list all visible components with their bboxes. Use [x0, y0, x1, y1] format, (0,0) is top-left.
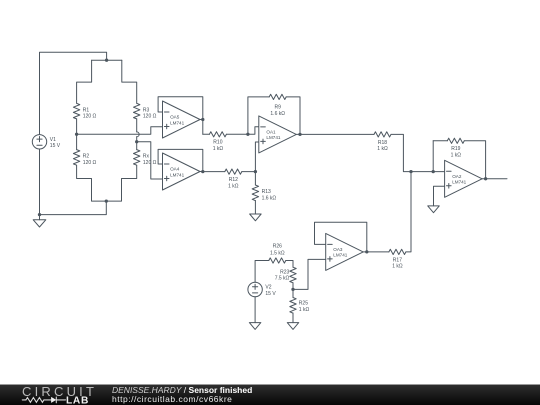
svg-text:LM741: LM741 — [170, 172, 184, 177]
node bridge bottom — [105, 199, 108, 202]
node OA5 output — [201, 118, 204, 121]
svg-text:R2: R2 — [83, 154, 90, 160]
svg-text:R25: R25 — [299, 301, 308, 307]
svg-text:7.5 kΩ: 7.5 kΩ — [275, 276, 290, 282]
resistor R25 — [290, 298, 296, 314]
svg-text:OA4: OA4 — [170, 167, 180, 172]
svg-text:LM741: LM741 — [452, 180, 466, 185]
svg-text:LM741: LM741 — [333, 253, 347, 258]
wire OA3 to R17 — [367, 251, 389, 253]
node OA4 output — [201, 170, 204, 173]
wire node C to OA1 - — [248, 127, 259, 135]
wire node A to OA5 + — [77, 127, 163, 135]
wire R9 feedback left — [248, 97, 269, 134]
wire OA1 output stub — [296, 133, 300, 135]
resistor R26 — [269, 258, 286, 263]
svg-text:120 Ω: 120 Ω — [83, 160, 97, 166]
svg-text:OA2: OA2 — [452, 174, 462, 179]
voltage source V2 — [248, 282, 262, 296]
resistor R9 — [269, 94, 286, 99]
wire R12 to node D — [242, 171, 256, 173]
wire R19 feedback left — [432, 141, 434, 172]
svg-text:120 Ω: 120 Ω — [83, 114, 97, 120]
svg-text:1 kΩ: 1 kΩ — [451, 153, 462, 159]
wire OA3 feedback — [315, 222, 367, 252]
wire R2 to bottom node — [77, 165, 107, 201]
wire bridge top — [92, 59, 122, 61]
svg-text:1 kΩ: 1 kΩ — [299, 307, 310, 313]
ground symbol at R13 — [250, 214, 262, 221]
wire V2 top to R26 — [255, 261, 269, 283]
svg-text:1 kΩ: 1 kΩ — [392, 264, 403, 270]
wire V2 bottom to ground — [254, 297, 256, 323]
wire bridge upper-right — [122, 60, 137, 103]
svg-text:OA1: OA1 — [266, 130, 276, 135]
node C R10/R9 junction — [246, 133, 249, 136]
wire R23 to node G — [292, 283, 294, 290]
ground symbol at V2 — [249, 323, 261, 330]
wire hop to node B — [136, 137, 138, 142]
wire R13 to ground — [254, 201, 256, 214]
wire OA2 + to ground — [434, 186, 445, 206]
wire node A to R2 — [76, 134, 78, 149]
svg-text:R17: R17 — [393, 257, 402, 263]
wire R25 to ground — [292, 313, 294, 323]
wire R1 to node — [76, 119, 78, 134]
svg-text:120 Ω: 120 Ω — [143, 114, 157, 120]
wire Rx to bottom node — [106, 165, 136, 201]
wire R19 lead left — [433, 140, 447, 142]
svg-text:R12: R12 — [229, 177, 238, 183]
resistor R3 — [134, 103, 140, 119]
wire R3 down to hop — [136, 119, 138, 132]
wire OA2 output stub — [482, 178, 486, 180]
wire bottom to V1 return — [40, 149, 107, 215]
wire OA5 feedback — [158, 97, 203, 135]
resistor R12 — [225, 169, 242, 174]
svg-text:R23: R23 — [280, 269, 289, 275]
wire OA5 output stub — [200, 119, 203, 121]
svg-text:R19: R19 — [451, 146, 460, 152]
voltage source V1 — [32, 135, 46, 149]
wire ground stub — [39, 215, 41, 220]
op-amp OA4 — [163, 153, 201, 190]
node E R17 tap — [409, 170, 412, 173]
wire OA4 to R12 — [203, 171, 225, 173]
resistor R18 — [374, 132, 391, 137]
svg-text:R3: R3 — [143, 107, 150, 113]
wire node D to OA1 + — [255, 142, 258, 172]
wire V1 top to rail — [40, 52, 107, 134]
node bridge top junction — [105, 59, 108, 62]
svg-text:1.5 kΩ: 1.5 kΩ — [270, 250, 285, 256]
wire R18 to OA2 - rail — [391, 134, 445, 171]
ground symbol at OA2 — [428, 206, 440, 213]
wire OA4 feedback — [158, 149, 203, 171]
svg-text:OA3: OA3 — [333, 247, 343, 252]
node G divider junction — [291, 288, 294, 291]
svg-text:LAB: LAB — [66, 395, 89, 405]
wire node G to R25 — [292, 289, 294, 297]
CircuitLab logo — [0, 384, 110, 405]
svg-text:1 kΩ: 1 kΩ — [213, 146, 224, 152]
svg-text:15 V: 15 V — [50, 143, 61, 149]
resistor R19 — [447, 138, 464, 143]
resistor R2 — [73, 150, 79, 166]
svg-text:LM741: LM741 — [266, 135, 280, 140]
ground symbol at V1 — [33, 220, 46, 227]
svg-text:R18: R18 — [378, 140, 387, 146]
wire R17 up to node E — [406, 172, 411, 252]
svg-text:R9: R9 — [274, 105, 281, 111]
svg-text:1 kΩ: 1 kΩ — [228, 183, 239, 189]
svg-text:R1: R1 — [83, 107, 90, 113]
svg-text:R10: R10 — [213, 140, 222, 146]
wire node B to OA4 + — [137, 142, 163, 179]
resistor Rx — [134, 150, 140, 166]
svg-text:120 Ω: 120 Ω — [143, 160, 157, 166]
footer bar — [0, 384, 540, 405]
wire OA5 to R10 — [203, 133, 210, 135]
svg-text:V1: V1 — [50, 137, 56, 143]
wire OA3 output stub — [363, 251, 367, 253]
wire bridge upper-left — [77, 60, 92, 103]
svg-text:1.6 kΩ: 1.6 kΩ — [270, 111, 285, 117]
resistor R1 — [73, 103, 79, 119]
node OA1 output — [298, 133, 301, 136]
svg-text:OA5: OA5 — [170, 115, 180, 120]
node A bridge left mid — [75, 133, 78, 136]
wire OA4 output stub — [200, 171, 203, 173]
op-amp OA3 — [326, 233, 364, 270]
node ground junction — [38, 213, 41, 216]
op-amp OA2 — [445, 160, 483, 197]
resistor R13 — [252, 185, 258, 201]
op-amp OA5 — [163, 101, 201, 138]
wire OA1 out to R18 — [300, 133, 374, 135]
wire R9 to output vert — [286, 97, 300, 134]
op-amp OA1 — [259, 116, 297, 153]
node B bridge right mid — [135, 140, 138, 143]
node D R12/R13 junction — [254, 170, 257, 173]
wire node D to R13 — [254, 172, 256, 185]
resistor R10 — [209, 132, 226, 137]
node OA2 output — [484, 177, 487, 180]
wire hop over mid rail — [137, 132, 139, 137]
svg-text:1 kΩ: 1 kΩ — [377, 146, 388, 152]
svg-text:1.6 kΩ: 1.6 kΩ — [262, 195, 277, 201]
ground symbol at R25 — [287, 323, 299, 330]
node F R19 tap — [432, 170, 435, 173]
resistor R17 — [389, 249, 406, 254]
svg-text:Rx: Rx — [143, 154, 150, 160]
wire R19 to output vert — [464, 141, 485, 179]
svg-text:LM741: LM741 — [170, 120, 184, 125]
svg-text:15 V: 15 V — [265, 291, 276, 297]
node OA3 output — [365, 250, 368, 253]
wire node B to Rx — [136, 142, 138, 150]
svg-text:R13: R13 — [262, 189, 271, 195]
svg-text:R26: R26 — [273, 244, 282, 250]
wire OA2 output — [486, 178, 507, 180]
wire OA3 + input path — [293, 259, 326, 289]
resistor R23 — [290, 267, 296, 283]
svg-text:V2: V2 — [265, 285, 271, 291]
wire R26 to R23 — [286, 261, 293, 268]
wire R10 to node C — [226, 133, 248, 135]
